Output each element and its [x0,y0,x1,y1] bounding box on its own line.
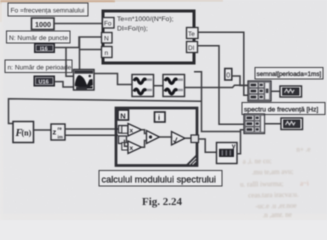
FFT node F(n) [13,122,34,143]
svg-text:N: Număr de puncte: N: Număr de puncte [9,35,68,42]
svg-text:y: y [232,143,236,150]
formula node terminal Te [187,28,199,39]
loop input stub 1 [122,126,128,133]
waveform icon 1 [132,75,154,97]
label: n numar de perioade [5,60,72,73]
control terminal I16 [35,44,55,53]
ghost bleed-through text [239,145,311,219]
svg-text:i: i [158,113,160,122]
control terminal U16 [34,76,55,86]
svg-text:Fo =frecvența semnalului: Fo =frecvența semnalului [11,8,85,15]
svg-text:0: 0 [226,73,230,80]
svg-text:(n): (n) [22,129,32,138]
wire n up to formula node [80,37,103,70]
svg-text:U16: U16 [39,80,49,86]
wire DI to bundle2 [197,46,244,125]
loop input stub 2 [122,143,128,150]
svg-text:im: im [58,135,63,140]
svg-text:n: Număr de perioade: n: Număr de perioade [8,64,72,71]
formula node terminal Fo [103,18,115,29]
constant 0 [225,69,232,81]
wire bundle1 to graph1 [271,90,280,92]
wire N to formula node [55,37,103,48]
svg-text:x: x [130,145,134,152]
formula node terminal N [102,33,113,44]
wire icon2 to bundle1 [185,85,249,87]
signal wire left run [9,99,202,124]
wire Fo to formula node [54,23,102,25]
wire loop out to y node [199,139,217,152]
waveform graph terminal 2 [281,118,303,130]
label: calculul modulului spectrului [99,171,222,187]
wire mult2 to add [142,141,147,148]
label: N numar de puncte [7,31,71,43]
multiply node 2 [128,141,142,154]
wire sqrt to tunnel [185,137,191,139]
svg-text:.mu te,am avu;: .mu te,am avu; [252,168,294,177]
svg-text:a ,i. ne co;: a ,i. ne co; [243,157,272,166]
caption Fig. 2.24 [142,196,183,208]
loop tunnel right [191,135,199,143]
svg-text:DI=Fo/(n);: DI=Fo/(n); [117,26,148,33]
svg-text:Fo: Fo [104,21,112,28]
svg-text:a~i: a~i [300,179,309,187]
add node [147,131,160,144]
complex to re-im node [51,124,65,140]
svg-text:DI: DI [188,45,195,52]
svg-text:z: z [53,128,57,137]
multiply node 1 [128,124,142,137]
loop tunnel left 1 [119,126,127,134]
svg-text:.n ,amr. ne: .n ,amr. ne [262,211,291,220]
bundle node 1 [248,81,271,101]
loop resize corner [186,155,196,165]
wire n to sine [55,82,74,87]
svg-text:u. ralll iwurma;: u. ralll iwurma; [240,180,284,189]
sqrt node [172,132,186,146]
svg-text:Fig. 2.24: Fig. 2.24 [142,196,183,208]
wire re to loop [65,128,118,130]
svg-text:n: n [105,50,109,57]
loop tunnel left 2 [119,136,127,144]
svg-text:Te: Te [188,31,195,38]
waveform icon 2 [163,75,185,97]
wire Fn to z node [34,129,52,131]
long signal wire to Fn and bundle2 [194,72,241,132]
wire add to sqrt [160,137,172,138]
for loop frame [116,108,197,166]
svg-text:n+ .e: n+ .e [296,145,310,153]
svg-text:calculul modulului spectrului: calculul modulului spectrului [102,174,216,184]
wire N branch down to sine [66,48,74,77]
loop iteration terminal i [155,112,166,122]
waveform graph terminal 1 [280,86,302,97]
svg-text:x: x [130,128,134,135]
svg-text:1000: 1000 [35,20,51,29]
formula node [103,11,194,63]
svg-text:N: N [120,111,125,120]
svg-text:-uc.e .u ,er.noe: -uc.e .u ,er.noe [255,202,296,211]
sine pattern icon [74,70,95,91]
wire sine out to icon1 [94,74,132,85]
svg-text:semnal[perioada=1ms]: semnal[perioada=1ms] [257,71,322,78]
wire mult1 to add [142,130,147,134]
svg-text:spectru de frecvență [Hz]: spectru de frecvență [Hz] [244,107,318,114]
label: semnal perioada [255,68,323,80]
loop count terminal N [118,110,129,120]
constant 1000 [32,18,55,30]
array node y [217,143,238,164]
wire bundle2 to graph2 [265,123,282,125]
svg-text:N: N [104,36,109,43]
svg-text:I16: I16 [40,47,48,53]
wire tunnel2 jog to stub2 [125,140,129,147]
bundle node 2 [244,114,265,134]
wire y node to bundle2 [237,130,244,154]
svg-text:ceas.tara iracva:u.: ceas.tara iracva:u. [248,191,299,200]
label: spectru de frecventa [242,103,325,115]
formula node terminal n [102,47,113,58]
wire Te to bundle1 [198,32,248,95]
wire 0 to bundle1 [232,76,248,86]
svg-text:Te=n*1000/(N*Fo);: Te=n*1000/(N*Fo); [117,16,174,23]
label: Fo =frecventa semnalului [8,3,88,16]
wire icon1 to icon2 [154,85,164,87]
wire im to loop [65,134,118,136]
formula node terminal DI [187,42,198,53]
svg-text:re: re [58,126,63,131]
